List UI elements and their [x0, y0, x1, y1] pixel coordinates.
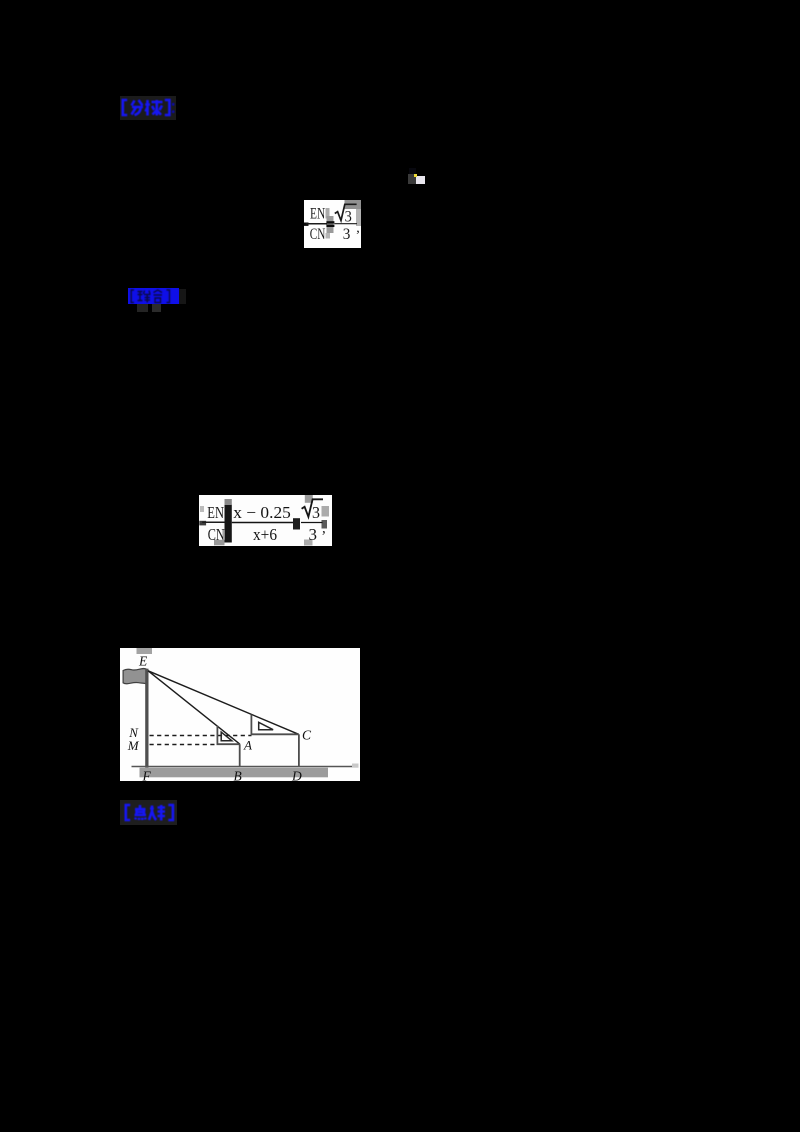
flag	[123, 668, 147, 684]
gray artifacts	[344, 200, 361, 209]
svg-text:,: ,	[322, 520, 326, 536]
svg-text:CN: CN	[208, 525, 225, 544]
svg-text:EN: EN	[207, 503, 224, 522]
svg-text:3: 3	[309, 525, 318, 544]
svg-text:CN: CN	[309, 225, 325, 242]
heading 1 blue text 【分析】	[120, 98, 178, 118]
equals sign	[326, 221, 334, 223]
svg-text:D: D	[291, 768, 302, 781]
heading block 2 : selected blue 【解答】	[179, 289, 186, 305]
svg-text:EN: EN	[310, 205, 326, 222]
small dark tabs under heading 2	[137, 304, 149, 312]
sqrt(3) over 3	[334, 204, 356, 220]
set square at C inner	[258, 722, 272, 729]
dashed line M to A	[149, 743, 217, 745]
svg-text:A: A	[243, 737, 252, 752]
sight line E to A	[148, 670, 240, 743]
svg-text:F: F	[141, 768, 151, 781]
set square at A inner	[221, 732, 232, 741]
small broken formula icon	[409, 168, 416, 174]
svg-text:3: 3	[342, 225, 350, 242]
svg-text:3: 3	[344, 208, 351, 225]
svg-text:x − 0.25: x − 0.25	[233, 503, 290, 522]
formula image 2 : EN/CN = (x-0.25)/(x+6) = sqrt(3)/3	[199, 495, 332, 547]
svg-text:,: ,	[356, 220, 360, 235]
ground gray band	[139, 767, 328, 777]
heading block 3 dark background	[120, 800, 177, 825]
heading 3 blue text 【点评】	[123, 803, 181, 823]
set square at C outer	[251, 714, 298, 734]
svg-text:B: B	[233, 768, 241, 781]
ground line FD	[131, 765, 356, 767]
sight line E to C	[148, 670, 299, 734]
flagpole EF	[145, 668, 148, 767]
gray artifacts	[200, 506, 204, 512]
svg-text:x+6: x+6	[253, 525, 277, 544]
formula image 1 : EN/CN = sqrt(3)/3	[304, 200, 361, 249]
gray tab at top of image	[136, 648, 152, 654]
equals dark square	[293, 518, 300, 529]
set square at A outer	[217, 725, 240, 744]
sqrt(3)/3	[302, 499, 323, 517]
dashed line N to C	[149, 734, 251, 736]
svg-text:3: 3	[312, 503, 320, 522]
svg-text:M: M	[126, 737, 139, 752]
svg-text:E: E	[138, 653, 148, 668]
vertical CD	[297, 734, 299, 767]
figure image : flagpole diagram	[120, 648, 361, 782]
nub at right end of ground line	[352, 763, 359, 767]
svg-text:C: C	[302, 727, 312, 742]
faint colon after bracket	[172, 103, 174, 113]
vertical AB	[238, 744, 240, 767]
heading block 1 dark background	[120, 96, 176, 120]
